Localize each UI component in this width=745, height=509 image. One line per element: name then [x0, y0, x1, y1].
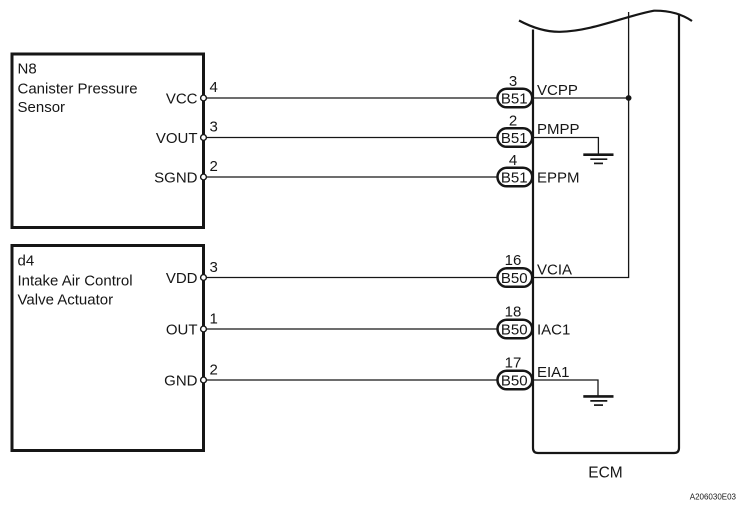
svg-text:B51: B51	[501, 90, 528, 107]
pin circle GND	[201, 377, 207, 383]
connector oval B50 pin 17	[498, 371, 533, 390]
svg-text:VOUT: VOUT	[156, 130, 198, 147]
svg-text:IAC1: IAC1	[537, 321, 570, 338]
svg-text:N8: N8	[18, 60, 37, 77]
ground symbol (EIA1)	[583, 396, 613, 405]
internal bus wire from torn top down to VCIA	[532, 12, 629, 278]
wire VCPP stub to junction	[532, 97, 629, 99]
svg-text:2: 2	[210, 362, 218, 379]
svg-text:3: 3	[509, 73, 517, 90]
svg-text:18: 18	[505, 304, 522, 321]
connector oval B50 pin 16	[498, 268, 533, 287]
svg-text:VCPP: VCPP	[537, 82, 578, 99]
wire VDD to B50 pin 16	[206, 277, 500, 279]
svg-text:ECM: ECM	[588, 464, 622, 481]
wire VCC to B51 pin 3	[206, 97, 500, 99]
ECM outline with torn wavy top	[533, 14, 679, 454]
junction dot at VCPP bus	[626, 95, 632, 101]
wire EIA1 to ground	[532, 380, 598, 396]
svg-text:2: 2	[210, 158, 218, 175]
connector oval B51 pin 3	[498, 89, 533, 108]
svg-text:OUT: OUT	[166, 321, 198, 338]
svg-text:B50: B50	[501, 270, 528, 287]
component box N8 Canister Pressure Sensor	[12, 54, 204, 228]
svg-text:3: 3	[210, 259, 218, 276]
svg-text:Sensor: Sensor	[18, 99, 66, 116]
svg-text:PMPP: PMPP	[537, 121, 580, 138]
svg-text:B50: B50	[501, 321, 528, 338]
pin circle OUT	[201, 326, 207, 332]
wire VOUT to B51 pin 2	[206, 137, 500, 139]
svg-text:GND: GND	[164, 372, 198, 389]
component box d4 Intake Air Control Valve Actuator	[12, 246, 204, 451]
ECM torn-edge wavy top curve	[519, 11, 692, 32]
svg-text:1: 1	[210, 311, 218, 328]
svg-text:VCC: VCC	[166, 90, 198, 107]
svg-text:Canister Pressure: Canister Pressure	[18, 81, 138, 98]
connector oval B51 pin 2	[498, 128, 533, 147]
wire PMPP to ground	[532, 138, 598, 155]
svg-text:VCIA: VCIA	[537, 262, 572, 279]
svg-text:EIA1: EIA1	[537, 364, 570, 381]
ground symbol (PMPP)	[583, 155, 613, 164]
svg-text:VDD: VDD	[166, 270, 198, 287]
wire GND to B50 pin 17	[206, 379, 500, 381]
svg-text:EPPM: EPPM	[537, 169, 580, 186]
svg-text:3: 3	[210, 119, 218, 136]
svg-text:17: 17	[505, 355, 522, 372]
svg-text:B50: B50	[501, 372, 528, 389]
svg-text:SGND: SGND	[154, 169, 198, 186]
svg-text:4: 4	[509, 152, 517, 169]
svg-text:4: 4	[210, 79, 218, 96]
wire SGND to B51 pin 4	[206, 176, 500, 178]
svg-text:B51: B51	[501, 130, 528, 147]
svg-text:d4: d4	[18, 253, 35, 270]
pin circle VCC	[201, 95, 207, 101]
pin circle VOUT	[201, 135, 207, 141]
pin circle VDD	[201, 275, 207, 281]
svg-text:A206030E03: A206030E03	[690, 493, 737, 502]
wire OUT to B50 pin 18	[206, 328, 500, 330]
svg-text:Valve Actuator: Valve Actuator	[18, 291, 114, 308]
svg-text:2: 2	[509, 113, 517, 130]
svg-text:B51: B51	[501, 169, 528, 186]
svg-text:Intake Air Control: Intake Air Control	[18, 273, 133, 290]
svg-text:16: 16	[505, 252, 522, 269]
pin circle SGND	[201, 174, 207, 180]
connector oval B50 pin 18	[498, 320, 533, 339]
connector oval B51 pin 4	[498, 168, 533, 187]
